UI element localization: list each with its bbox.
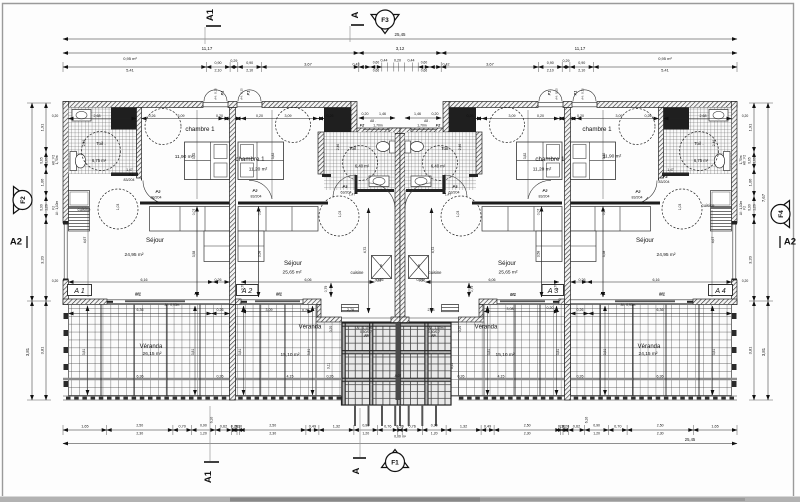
porch side wall	[351, 102, 357, 133]
svg-text:3,82: 3,82	[602, 153, 606, 160]
lower wall at patio	[316, 317, 342, 323]
shower dark square end unit	[662, 108, 689, 130]
svg-text:3,20: 3,20	[40, 255, 45, 264]
svg-text:4,15: 4,15	[287, 375, 294, 379]
bathroom2 lower threshold	[406, 189, 443, 192]
svg-text:2,30: 2,30	[657, 432, 664, 436]
bathroom partition wall	[659, 108, 664, 179]
svg-text:0,90: 0,90	[200, 424, 207, 428]
svg-text:chambre 1: chambre 1	[535, 156, 565, 163]
svg-text:26,15 m²: 26,15 m²	[143, 351, 162, 357]
svg-text:F1: F1	[601, 291, 607, 296]
WC end unit	[70, 152, 77, 171]
svg-text:0,20: 0,20	[216, 114, 223, 118]
washbasin inner unit	[411, 176, 431, 187]
veranda mullions	[100, 305, 102, 397]
svg-text:0,44: 0,44	[408, 59, 415, 63]
door P2 end unit	[152, 197, 166, 204]
svg-text:0,20: 0,20	[394, 59, 401, 63]
sliding door M1 end unit	[571, 299, 694, 301]
shower dark square end unit	[111, 108, 138, 130]
right exterior wall upper	[732, 102, 738, 224]
left exterior wall lower	[63, 280, 69, 305]
svg-text:2,50: 2,50	[269, 424, 276, 428]
bathroom partition wall	[137, 108, 142, 179]
svg-text:3,08: 3,08	[507, 307, 514, 311]
top dimension row 3	[63, 66, 206, 68]
svg-text:P1: P1	[548, 91, 552, 96]
svg-text:11,90 m²: 11,90 m²	[175, 154, 194, 160]
svg-text:15,10 m²: 15,10 m²	[281, 352, 300, 358]
central party wall	[400, 134, 405, 323]
svg-text:0,76: 0,76	[384, 425, 391, 429]
svg-text:0,20: 0,20	[742, 114, 749, 118]
left vertical dimension lines	[31, 103, 33, 301]
section marker A top	[349, 26, 351, 42]
svg-text:25,65 m²: 25,65 m²	[283, 270, 302, 276]
svg-text:2,30: 2,30	[269, 432, 276, 436]
svg-text:0,44: 0,44	[381, 59, 388, 63]
svg-text:0,79: 0,79	[470, 286, 474, 293]
svg-text:0,07: 0,07	[537, 209, 541, 216]
svg-text:3,81: 3,81	[748, 346, 753, 355]
window in right wall	[735, 223, 737, 280]
svg-text:25,45: 25,45	[395, 32, 407, 37]
svg-text:2,30: 2,30	[524, 432, 531, 436]
svg-text:2,78: 2,78	[428, 308, 435, 312]
pergola trellis over central patio	[342, 323, 452, 406]
veranda bottom post row	[63, 395, 342, 397]
svg-text:cuisine: cuisine	[350, 270, 364, 275]
svg-text:24,95 m²: 24,95 m²	[125, 252, 144, 258]
svg-text:3,09: 3,09	[616, 114, 623, 118]
bathroom2 lower threshold	[357, 189, 394, 192]
svg-text:0,26: 0,26	[327, 114, 334, 118]
svg-text:0,26: 0,26	[149, 114, 156, 118]
WC inner unit	[377, 142, 390, 152]
hallway door arc on centre wall	[369, 183, 395, 209]
svg-text:3,12: 3,12	[396, 46, 405, 51]
svg-text:3,81: 3,81	[307, 349, 311, 356]
top wall stub at party wall	[563, 102, 572, 108]
shower dark square inner unit	[324, 108, 351, 133]
svg-text:25,65 m²: 25,65 m²	[499, 270, 518, 276]
svg-text:1,91: 1,91	[748, 123, 753, 132]
door P2 inner unit arc	[249, 180, 272, 199]
svg-text:3,67: 3,67	[486, 62, 495, 67]
turning circle hallway inner unit	[441, 196, 481, 236]
veranda dimension lines with arrows	[69, 313, 212, 315]
bed end unit	[571, 142, 616, 180]
svg-text:0,60: 0,60	[45, 157, 49, 164]
entry door opening P1 (right)	[596, 102, 598, 108]
svg-text:Véranda: Véranda	[638, 344, 661, 350]
turning circle bathroom end unit	[82, 132, 121, 171]
svg-text:2,46: 2,46	[82, 140, 86, 147]
bathroom2 threshold	[322, 174, 331, 177]
svg-text:0,70: 0,70	[179, 425, 186, 429]
veranda bottom post row	[459, 395, 738, 397]
svg-text:2,50: 2,50	[136, 424, 143, 428]
svg-text:0,95 m²: 0,95 m²	[123, 56, 137, 61]
door P3 inner unit	[444, 175, 467, 198]
svg-text:0,65: 0,65	[40, 157, 44, 164]
svg-text:M1: M1	[659, 292, 665, 297]
section flag F3 top	[371, 15, 399, 34]
section marker A1 top	[204, 27, 206, 44]
turning circle bathroom inner unit	[423, 146, 458, 181]
door P2 end unit	[634, 197, 648, 204]
svg-text:1,20: 1,20	[593, 432, 600, 436]
veranda beam line	[63, 378, 342, 380]
svg-text:Véranda: Véranda	[475, 325, 498, 331]
bathroom floor tiles end unit	[664, 108, 732, 175]
door swing arc P1 (left pair)	[204, 90, 227, 102]
svg-text:2,10: 2,10	[246, 69, 253, 73]
svg-text:0,70: 0,70	[614, 425, 621, 429]
svg-text:F4: F4	[778, 210, 785, 218]
door swing arc P1 (right pair)	[573, 90, 596, 102]
pergola post stubs below	[354, 405, 356, 426]
section flag F4 right	[772, 201, 790, 228]
fridge R inner unit	[372, 256, 392, 279]
svg-text:6,75 m²: 6,75 m²	[92, 158, 107, 163]
washbasin inner unit	[369, 176, 389, 187]
svg-text:0,29: 0,29	[230, 59, 237, 63]
section box A2 inner	[542, 285, 564, 296]
kitchen block end unit	[711, 191, 732, 207]
svg-text:Al : 1,10m: Al : 1,10m	[55, 200, 59, 215]
svg-text:1,32: 1,32	[460, 425, 467, 429]
step wall	[317, 305, 321, 318]
svg-text:3,81: 3,81	[191, 349, 195, 356]
svg-text:A4 : 0,15: A4 : 0,15	[240, 88, 244, 100]
svg-text:3,81: 3,81	[25, 347, 30, 356]
svg-text:P3: P3	[453, 184, 459, 189]
kitchen counter dark bar inner unit	[238, 202, 328, 205]
svg-text:A: A	[351, 467, 362, 474]
svg-text:2,46: 2,46	[336, 144, 340, 151]
svg-text:0,07: 0,07	[192, 209, 196, 216]
svg-text:0,60: 0,60	[421, 61, 428, 65]
sofa inner unit	[238, 207, 318, 232]
turning circle chambre end unit	[619, 109, 655, 145]
svg-text:0,26: 0,26	[577, 308, 584, 312]
svg-text:0,26: 0,26	[215, 278, 222, 282]
svg-text:Toil .: Toil .	[349, 146, 358, 151]
party wall between end and inner unit	[230, 108, 236, 305]
svg-text:Toil .: Toil .	[96, 141, 105, 146]
svg-text:0,20: 0,20	[742, 279, 749, 283]
svg-text:0,70: 0,70	[241, 284, 245, 291]
turning circle hallway inner unit	[319, 196, 359, 236]
svg-text:A2: A2	[784, 237, 796, 248]
WC inner unit	[411, 142, 424, 152]
svg-text:5,41: 5,41	[661, 68, 670, 73]
svg-text:P2: P2	[156, 189, 162, 194]
bathroom2 threshold	[469, 174, 478, 177]
svg-text:0,10: 0,10	[558, 425, 565, 429]
svg-text:Séjour: Séjour	[284, 260, 302, 267]
svg-text:0,62: 0,62	[220, 425, 227, 429]
svg-text:4,72: 4,72	[431, 247, 435, 254]
bottom total dimension	[63, 443, 737, 445]
svg-text:2,10: 2,10	[547, 69, 554, 73]
interior dim line cuisine depth	[368, 208, 370, 313]
svg-text:1,91: 1,91	[40, 123, 45, 132]
section flag F2 left	[14, 187, 32, 214]
bed end unit	[185, 142, 230, 180]
svg-text:R: R	[418, 264, 421, 268]
svg-text:Séjour: Séjour	[636, 237, 654, 244]
door P3 end unit	[143, 181, 166, 204]
svg-text:11,17: 11,17	[202, 46, 213, 51]
svg-text:3,09: 3,09	[509, 114, 516, 118]
svg-text:3,58: 3,58	[602, 251, 606, 258]
kitchen counter dark bar end unit	[571, 202, 661, 205]
svg-text:P2: P2	[253, 188, 259, 193]
svg-text:1,47: 1,47	[667, 168, 673, 172]
svg-text:0,42: 0,42	[443, 63, 450, 67]
svg-text:F3: F3	[381, 17, 389, 24]
party wall between end and inner unit	[565, 108, 571, 305]
lower wall at patio	[459, 317, 485, 323]
bed inner unit	[517, 142, 563, 180]
svg-text:3,82: 3,82	[523, 153, 527, 160]
svg-text:Al : 1,10m: Al : 1,10m	[739, 200, 743, 215]
svg-text:0,20: 0,20	[547, 306, 554, 310]
turning circle hallway end unit	[98, 189, 138, 229]
svg-text:P3: P3	[129, 172, 135, 177]
svg-text:0,49: 0,49	[309, 425, 316, 429]
svg-text:-0,07: -0,07	[394, 374, 402, 378]
veranda posts left edge	[64, 313, 69, 319]
svg-text:A8 : F2: A8 : F2	[743, 155, 747, 166]
svg-text:chambre 1: chambre 1	[235, 156, 265, 163]
svg-text:0,26: 0,26	[577, 375, 584, 379]
svg-text:2,46: 2,46	[712, 140, 716, 147]
door P3 end unit	[634, 181, 657, 204]
sliding door M1 inner unit	[241, 299, 303, 301]
washbasin end unit	[709, 110, 728, 122]
svg-text:0,60: 0,60	[373, 61, 380, 65]
door P2 inner unit arc	[528, 180, 551, 199]
bottom wall inner unit left part	[236, 299, 242, 305]
svg-text:0,20: 0,20	[52, 114, 59, 118]
sliding leaf M1 end unit	[125, 300, 185, 302]
sofa end unit	[571, 207, 651, 232]
veranda inner unit floor grid	[484, 305, 565, 397]
svg-text:0,26: 0,26	[217, 308, 224, 312]
svg-text:2,50: 2,50	[657, 424, 664, 428]
svg-text:5,41: 5,41	[126, 68, 135, 73]
svg-text:A 1: A 1	[73, 286, 85, 295]
svg-text:Toil .: Toil .	[694, 141, 703, 146]
central party wall	[395, 134, 400, 323]
svg-text:1,03: 1,03	[338, 211, 342, 218]
svg-text:4,67: 4,67	[711, 237, 715, 244]
svg-text:3,11: 3,11	[450, 363, 454, 369]
svg-text:P1: P1	[221, 91, 225, 96]
sliding door M1 inner unit	[497, 299, 559, 301]
bottom wall inner unit right part	[479, 299, 497, 305]
hallway door arc on centre wall	[405, 183, 431, 209]
svg-text:15,10 m²: 15,10 m²	[496, 352, 515, 358]
svg-text:4,67: 4,67	[83, 237, 87, 244]
svg-text:0,07: 0,07	[602, 209, 606, 216]
patio door thin lines	[409, 317, 459, 319]
svg-text:3,81: 3,81	[40, 346, 45, 355]
kitchen counter dark bar end unit	[140, 202, 230, 205]
top exterior wall inner segment	[262, 102, 351, 108]
kitchen counter dark bar inner unit	[472, 202, 562, 205]
svg-text:0,26: 0,26	[458, 375, 465, 379]
svg-text:2,30: 2,30	[136, 432, 143, 436]
svg-text:0,90: 0,90	[593, 424, 600, 428]
svg-text:0,70: 0,70	[302, 309, 309, 313]
svg-text:3,67: 3,67	[304, 62, 313, 67]
svg-text:0,00 m²: 0,00 m²	[394, 435, 407, 439]
svg-text:6,16: 6,16	[653, 278, 660, 282]
svg-text:0,26: 0,26	[579, 278, 586, 282]
svg-text:0,20: 0,20	[362, 112, 369, 116]
svg-text:Al : 0,93m: Al : 0,93m	[165, 303, 180, 307]
sofa end unit	[150, 207, 230, 232]
step wall	[479, 305, 483, 318]
svg-text:A2: A2	[10, 237, 22, 248]
section marker A1 bottom	[209, 406, 211, 461]
top exterior wall right segment	[597, 102, 737, 108]
svg-text:3,81: 3,81	[238, 349, 242, 356]
svg-text:P2: P2	[543, 188, 549, 193]
svg-text:0,70: 0,70	[554, 284, 558, 291]
top dimension row 1 total	[63, 38, 737, 40]
svg-text:1,20: 1,20	[200, 432, 207, 436]
interior dim line cuisine depth	[431, 208, 433, 313]
svg-text:24,95 m²: 24,95 m²	[657, 252, 676, 258]
bathroom threshold bar	[662, 173, 689, 177]
svg-text:3,58: 3,58	[192, 251, 196, 258]
séjour dimension lines with arrows	[69, 281, 214, 283]
turning circle hallway end unit	[662, 189, 702, 229]
svg-text:0,90: 0,90	[748, 204, 752, 211]
svg-text:6,40 m²: 6,40 m²	[355, 164, 370, 169]
bottom wall inner unit left part	[559, 299, 565, 305]
svg-text:1,47: 1,47	[445, 193, 451, 197]
svg-text:Al : 0,93m: Al : 0,93m	[621, 303, 636, 307]
svg-text:FP: FP	[364, 334, 369, 338]
section marker A bottom	[359, 408, 361, 457]
section flag F1 bottom	[382, 450, 409, 468]
svg-text:11,17: 11,17	[575, 46, 586, 51]
bottom wall inner unit right part	[303, 299, 321, 305]
svg-text:3,09: 3,09	[178, 114, 185, 118]
svg-text:0,26: 0,26	[375, 279, 382, 283]
svg-text:11,20 m²: 11,20 m²	[249, 167, 268, 173]
fridge R inner unit	[409, 256, 429, 279]
veranda posts right edge	[732, 313, 737, 319]
svg-text:3,81: 3,81	[761, 347, 766, 356]
svg-text:1,32: 1,32	[333, 425, 340, 429]
kitchen block end unit	[69, 191, 90, 207]
svg-text:A4 : 0,15: A4 : 0,15	[214, 88, 218, 100]
svg-text:F1: F1	[195, 291, 201, 296]
lower wall centre stub	[391, 317, 400, 323]
bottom scan edge	[0, 497, 800, 502]
svg-text:3,58: 3,58	[537, 251, 541, 258]
svg-text:0,20: 0,20	[537, 114, 544, 118]
svg-text:0,90: 0,90	[40, 204, 44, 211]
svg-text:F1: F1	[743, 206, 747, 210]
kitchen counter at step	[442, 305, 459, 312]
svg-text:0,20: 0,20	[577, 114, 584, 118]
sofa inner unit	[482, 207, 562, 232]
bathroom threshold bar	[111, 173, 138, 177]
svg-text:11,20 m²: 11,20 m²	[533, 167, 552, 173]
svg-text:cuisine: cuisine	[77, 207, 91, 212]
svg-text:1,47: 1,47	[349, 193, 355, 197]
svg-text:1,70m: 1,70m	[373, 124, 383, 128]
bathroom floor tiles inner unit	[405, 132, 476, 190]
svg-text:83/204: 83/204	[251, 195, 262, 199]
veranda inner unit floor grid	[236, 305, 317, 397]
sliding leaf M1 inner unit	[500, 300, 545, 302]
svg-text:2,10: 2,10	[578, 69, 585, 73]
shower dark square inner unit	[449, 108, 476, 133]
interior dim line chambre right	[602, 110, 604, 199]
svg-text:1,20: 1,20	[45, 204, 49, 211]
svg-text:chambre 1: chambre 1	[582, 126, 612, 133]
svg-text:6,06: 6,06	[489, 278, 496, 282]
entry door opening P1 (left)	[202, 102, 204, 108]
svg-text:0,90: 0,90	[215, 61, 222, 65]
bottom wall end unit	[693, 299, 737, 305]
svg-text:1,20: 1,20	[753, 204, 757, 211]
door P3 inner unit	[333, 175, 356, 198]
svg-text:A: A	[350, 11, 361, 18]
svg-text:1,46: 1,46	[414, 112, 421, 116]
svg-text:3,82: 3,82	[192, 153, 196, 160]
svg-text:2,46: 2,46	[458, 144, 462, 151]
party wall through veranda	[565, 305, 571, 401]
svg-text:0,66: 0,66	[421, 69, 428, 73]
svg-text:0,76: 0,76	[409, 425, 416, 429]
svg-text:cuisine: cuisine	[701, 203, 715, 208]
washbasin end unit	[72, 110, 91, 122]
patio door thin lines	[342, 317, 392, 319]
sliding leaf M1 end unit	[615, 300, 675, 302]
svg-text:Séjour: Séjour	[498, 260, 516, 267]
top exterior wall left segment	[63, 102, 203, 108]
svg-text:A4 : 0,15: A4 : 0,15	[581, 88, 585, 100]
svg-text:1,06: 1,06	[748, 178, 753, 187]
svg-text:F2: F2	[20, 196, 27, 204]
sliding door M1 end unit	[107, 299, 230, 301]
svg-text:4,15: 4,15	[498, 375, 505, 379]
svg-text:6,36: 6,36	[137, 375, 144, 379]
window F2 in porch wall (left)	[363, 129, 389, 131]
svg-text:Toil .: Toil .	[441, 146, 450, 151]
svg-text:0,60: 0,60	[753, 157, 757, 164]
svg-text:0,20: 0,20	[458, 326, 462, 333]
svg-text:A4 : 0,15: A4 : 0,15	[555, 88, 559, 100]
svg-text:P3: P3	[343, 184, 349, 189]
svg-text:1,46: 1,46	[379, 112, 386, 116]
svg-text:4,72: 4,72	[363, 247, 367, 254]
bed inner unit	[238, 142, 284, 180]
svg-text:2,68: 2,68	[94, 114, 101, 118]
svg-text:83/204: 83/204	[632, 196, 643, 200]
